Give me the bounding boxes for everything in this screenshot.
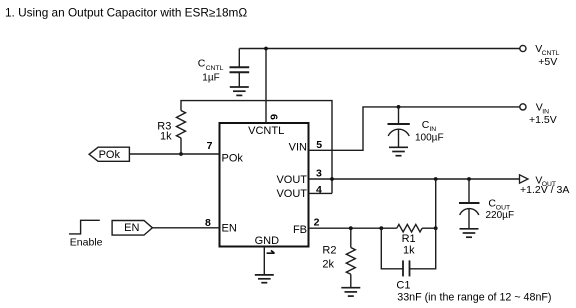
svg-text:VOUT: VOUT [276, 188, 307, 200]
capacitor C_CNTL plates [230, 67, 250, 72]
svg-text:2k: 2k [322, 259, 334, 271]
terminal V_CNTL [520, 45, 526, 51]
ground (GND pin) [255, 275, 274, 283]
svg-text:FB: FB [293, 224, 307, 236]
wire C1 left leg [381, 228, 403, 269]
wire POk to pin 7 [129, 153, 219, 155]
svg-text:EN: EN [124, 222, 139, 234]
svg-text:100µF: 100µF [415, 132, 444, 143]
svg-text:VIN: VIN [289, 141, 307, 153]
svg-text:1. Using an Output Capacitor w: 1. Using an Output Capacitor with ESR≥18… [5, 6, 247, 20]
node pin3/pin4 tie junction [330, 177, 334, 181]
terminal V_OUT arrow [520, 175, 529, 183]
capacitor C_OUT curved plate [460, 209, 479, 215]
svg-text:6: 6 [268, 114, 280, 120]
wire EN to pin 8 [152, 227, 219, 229]
node C1 left junction [379, 226, 383, 230]
wire R1C1 vertical to VOUT [435, 179, 437, 228]
svg-text:R1: R1 [402, 233, 416, 245]
ground (R2) [341, 288, 360, 296]
pin number 1 (rotated) [267, 250, 275, 253]
wire FB pin 2 [309, 227, 397, 229]
wire VOUT pin 4 stub [309, 192, 333, 194]
node R3/POk junction [179, 152, 183, 156]
svg-text:GND: GND [255, 235, 280, 247]
node C_OUT junction [467, 177, 471, 181]
wire VCNTL vertical to pin 6 [265, 49, 267, 124]
svg-text:33nF (in the range of 12 ~ 48n: 33nF (in the range of 12 ~ 48nF) [397, 292, 551, 304]
wire GND pin stem [263, 247, 265, 275]
input flag EN [112, 221, 152, 236]
ground (C_CNTL) [230, 87, 249, 95]
node C_IN junction [397, 105, 401, 109]
ground (C_IN) [389, 147, 408, 155]
wire VIN pin 5 stub [309, 107, 520, 150]
svg-text:Enable: Enable [70, 236, 103, 248]
Enable step waveform [69, 220, 100, 234]
capacitor C_OUT stub [468, 179, 470, 203]
capacitor C1 plates [403, 260, 410, 276]
svg-text:+1.5V: +1.5V [529, 114, 557, 126]
resistor R2 [350, 228, 352, 247]
wire VOUT rail pin 3 [309, 178, 520, 180]
resistor R1 [397, 224, 422, 232]
svg-text:2: 2 [314, 216, 320, 228]
node VCNTL junction [264, 47, 268, 51]
svg-text:C: C [198, 58, 206, 70]
ground (C_OUT) [460, 229, 479, 237]
capacitor C_OUT top plate [459, 202, 480, 204]
capacitor C_IN curved plate [388, 129, 409, 136]
svg-text:8: 8 [205, 217, 211, 229]
capacitor C_CNTL stub top [238, 49, 240, 68]
wire FB right segment [422, 227, 436, 229]
svg-text:1µF: 1µF [202, 73, 219, 84]
op-amp U1 (regulator IC body) [220, 123, 309, 247]
svg-text:VCNTL: VCNTL [248, 125, 284, 137]
node R1/C1 right junction [434, 226, 438, 230]
svg-text:POk: POk [99, 149, 121, 161]
svg-text:+1.2V / 3A: +1.2V / 3A [520, 184, 569, 196]
svg-text:CNTL: CNTL [206, 65, 224, 72]
svg-text:EN: EN [222, 222, 237, 234]
svg-text:7: 7 [207, 140, 213, 152]
capacitor C_OUT stem [468, 209, 470, 229]
wire R3 bottom [180, 138, 182, 154]
output flag POk [89, 147, 129, 161]
node R2 junction [349, 226, 353, 230]
wire R3 top rail [181, 101, 332, 194]
svg-text:1k: 1k [160, 131, 172, 143]
capacitor C_IN stem [398, 130, 400, 148]
svg-text:5: 5 [316, 139, 322, 151]
node R1/C1 to VOUT junction [434, 177, 438, 181]
svg-text:220µF: 220µF [486, 210, 515, 221]
svg-text:C1: C1 [396, 280, 410, 292]
resistor R3 [177, 111, 186, 138]
svg-text:POk: POk [222, 152, 244, 164]
wire C1 right leg [410, 228, 436, 269]
capacitor C_CNTL stub bottom [238, 72, 240, 87]
svg-text:VOUT: VOUT [276, 174, 307, 186]
svg-text:3: 3 [316, 168, 322, 180]
capacitor C_IN stub [398, 107, 400, 124]
terminal V_IN [520, 104, 526, 110]
svg-text:1k: 1k [403, 245, 415, 257]
svg-text:+5V: +5V [538, 56, 557, 68]
svg-text:R2: R2 [322, 245, 336, 257]
capacitor C_IN top plate [388, 123, 410, 125]
wire VCNTL top rail [239, 48, 520, 50]
